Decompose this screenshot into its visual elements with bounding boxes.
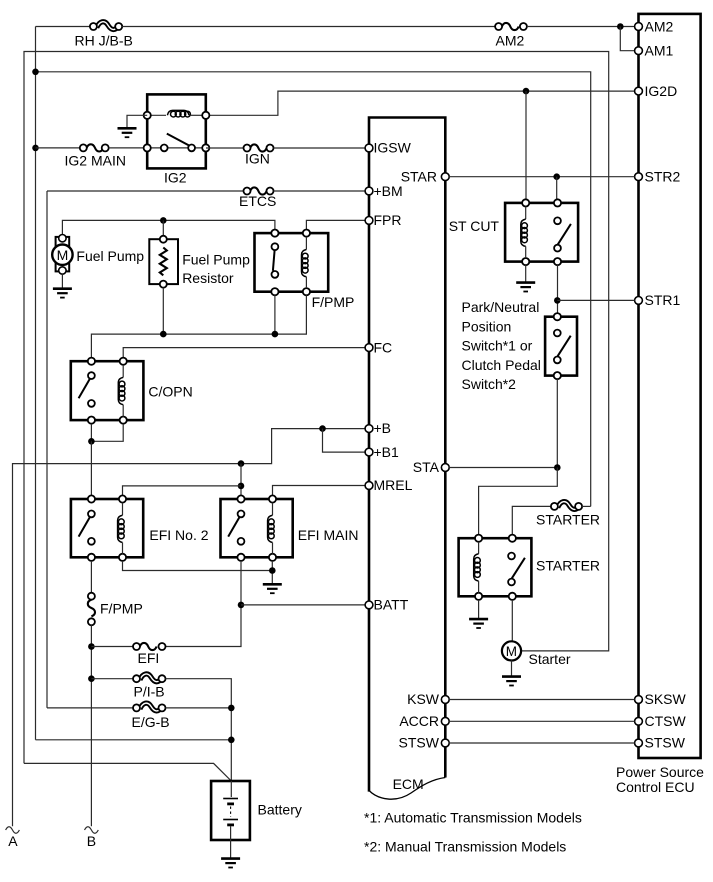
node IG2D / ST CUT branch: [523, 88, 530, 95]
svg-text:Fuel Pump: Fuel Pump: [76, 248, 144, 264]
svg-text:ACCR: ACCR: [399, 713, 439, 729]
svg-text:FC: FC: [374, 339, 393, 355]
note *1: [364, 810, 582, 826]
node +B branch: [319, 425, 326, 432]
svg-text:A: A: [8, 833, 18, 849]
svg-text:*2: Manual Transmission Models: *2: Manual Transmission Models: [364, 838, 566, 854]
pin STR2: [635, 168, 681, 184]
node STAR/ST CUT junction: [553, 173, 560, 180]
svg-text:ETCS: ETCS: [239, 193, 276, 209]
wire ETCS left segment: [47, 190, 244, 192]
node STA junction: [554, 464, 561, 471]
node EFI feed junction y=463.6: [238, 460, 245, 467]
ECM box: [369, 118, 445, 800]
wire ST CUT switch to STR1 junction: [557, 265, 559, 313]
ground (fuel pump): [53, 289, 72, 298]
ground (IG2 coil): [118, 128, 137, 137]
svg-text:SKSW: SKSW: [645, 691, 687, 707]
ground (battery): [221, 859, 240, 868]
node C/OPN output: [88, 438, 95, 445]
pin +B1: [365, 444, 399, 460]
svg-text:Power Source: Power Source: [616, 764, 704, 780]
ground (EFI relays): [263, 584, 282, 593]
wire STARTER coil to ground: [478, 600, 480, 619]
wire battery rail to RH J/B-B line (x=35.5): [35, 27, 37, 740]
wire +B1 branch: [323, 429, 366, 453]
Power Source Control ECU box: [616, 14, 704, 795]
wire ETCS to +BM pin: [274, 190, 366, 192]
svg-text:Battery: Battery: [258, 801, 302, 817]
node IG2 MAIN junction on battery rail: [32, 145, 39, 152]
wire y=26.5 right segment to AM2 pin: [527, 26, 635, 28]
note *2: [364, 838, 566, 854]
ground (STARTER relay): [469, 619, 488, 628]
wire KSW to SKSW: [449, 699, 634, 701]
wire P/I-B left segment: [91, 678, 133, 680]
fuse RH J/B-B: [75, 22, 133, 49]
svg-text:EFI No. 2: EFI No. 2: [149, 527, 208, 543]
svg-text:STARTER: STARTER: [536, 512, 600, 528]
svg-text:BATT: BATT: [374, 597, 409, 613]
pin STAR: [401, 168, 450, 184]
svg-text:STSW: STSW: [645, 735, 686, 751]
pin IG2D: [635, 83, 678, 99]
svg-text:F/PMP: F/PMP: [312, 294, 355, 310]
wire relay coil grounds join: [123, 561, 273, 584]
pin MREL: [365, 477, 413, 493]
wire RH J/B-B rail bottom segment: [36, 739, 232, 741]
wire IG2 MAIN left segment: [36, 147, 80, 149]
wire STA to STARTER coil: [479, 468, 558, 535]
svg-text:Switch*1 or: Switch*1 or: [462, 338, 533, 354]
terminal B: [85, 827, 99, 849]
fuse AM2: [495, 23, 527, 49]
wire starter motor to ground: [511, 660, 513, 676]
wire STSW to STSW: [449, 742, 634, 744]
relay EFI No. 2: [71, 495, 209, 561]
wire P/I-B to battery rail: [166, 679, 232, 781]
wire B-terminal rail (x=91.4): [90, 625, 92, 826]
svg-text:IG2 MAIN: IG2 MAIN: [65, 153, 126, 169]
relay STARTER: [459, 535, 600, 600]
wire E/G-B left segment: [47, 707, 133, 709]
fuse IGN: [244, 144, 274, 166]
resistor Fuel Pump Resistor: [149, 236, 250, 288]
svg-text:RH J/B-B: RH J/B-B: [75, 33, 133, 49]
wire BATT line: [241, 604, 365, 606]
pin STR1: [635, 292, 681, 308]
svg-text:M: M: [57, 247, 69, 263]
wire IG2 MAIN to relay: [109, 147, 147, 149]
svg-text:Control ECU: Control ECU: [616, 779, 695, 795]
pin FPR: [365, 212, 401, 228]
svg-text:Position: Position: [462, 318, 512, 334]
svg-text:STAR: STAR: [401, 168, 437, 184]
svg-text:FPR: FPR: [374, 212, 402, 228]
node E/G-B battery junction: [228, 705, 235, 712]
svg-text:EFI: EFI: [138, 650, 160, 666]
wire F/PMP switch bottom: [274, 295, 276, 334]
wire STA line: [449, 467, 557, 469]
svg-text:F/PMP: F/PMP: [100, 601, 143, 617]
node RH J/B-B battery junction: [228, 737, 235, 744]
terminal A: [6, 827, 20, 849]
pin IGSW: [365, 140, 412, 156]
svg-text:KSW: KSW: [407, 691, 440, 707]
svg-text:M: M: [506, 644, 517, 659]
pin STSW (ECM): [399, 735, 450, 751]
node MREL-line junction: [238, 483, 245, 490]
wire ST CUT coil to ground: [525, 265, 527, 282]
wire IGN to IGSW pin: [274, 147, 366, 149]
svg-text:EFI MAIN: EFI MAIN: [298, 527, 359, 543]
svg-text:STARTER: STARTER: [536, 558, 600, 574]
svg-text:Starter: Starter: [529, 651, 571, 667]
relay EFI MAIN: [221, 495, 359, 561]
wire IG2 coil to IG2D pin: [206, 91, 635, 115]
motor Fuel Pump: [52, 235, 144, 275]
svg-text:Resistor: Resistor: [182, 270, 234, 286]
node coil ground junction: [269, 567, 276, 574]
svg-text:C/OPN: C/OPN: [148, 384, 192, 400]
svg-text:IGSW: IGSW: [374, 140, 412, 156]
wire y=26.5 middle segment: [122, 26, 495, 28]
svg-text:Fuel Pump: Fuel Pump: [182, 252, 250, 268]
wire top line y=26.5 left segment: [36, 26, 91, 28]
wire A-terminal rail (x=12.5) and +B feed: [13, 429, 366, 827]
svg-text:ST CUT: ST CUT: [449, 218, 500, 234]
wire junction to ST CUT switch: [556, 177, 558, 200]
ground (ST CUT): [516, 283, 535, 292]
relay F/PMP: [255, 230, 355, 311]
node EFI fuse junction: [88, 643, 95, 650]
node resistor top: [160, 217, 167, 224]
node STR1 junction: [554, 297, 561, 304]
wire jumper to AM1: [620, 27, 634, 51]
wire STARTER switch to motor: [511, 600, 513, 642]
svg-text:P/I-B: P/I-B: [134, 684, 165, 700]
wire P/N switch to STA junction: [556, 379, 558, 467]
node BATT junction: [238, 602, 245, 609]
svg-text:E/G-B: E/G-B: [132, 714, 170, 730]
wire ACCR to CTSW: [449, 720, 634, 722]
svg-text:Park/Neutral: Park/Neutral: [462, 299, 540, 315]
wire STARTER fuse right segment: [582, 505, 591, 507]
fuse F/PMP: [88, 593, 143, 626]
svg-text:STSW: STSW: [399, 735, 440, 751]
wire resistor bottom to return line: [162, 288, 164, 335]
wire IGN segment: [206, 147, 244, 149]
wire C/OPN to EFI No.2 switch: [90, 441, 92, 495]
pin ACCR: [399, 713, 449, 729]
wire FC line: [123, 348, 365, 358]
pin KSW: [407, 691, 449, 707]
svg-text:*1: Automatic Transmission Mod: *1: Automatic Transmission Models: [364, 810, 582, 826]
fuse P/I-B: [133, 674, 166, 700]
wire EFI No.2 switch down to F/PMP fuse: [90, 561, 92, 593]
wire IG2 coil to ground: [127, 115, 147, 127]
svg-text:AM2: AM2: [496, 33, 525, 49]
svg-text:STR2: STR2: [645, 168, 681, 184]
node P/I-B junction: [88, 675, 95, 682]
switch Park/Neutral Position or Clutch Pedal: [462, 299, 578, 392]
fuse IG2 MAIN: [65, 144, 126, 168]
wire STAR to STR2: [449, 176, 634, 178]
pin CTSW: [635, 713, 687, 729]
wire E/G-B right segment: [166, 707, 232, 709]
svg-text:IG2: IG2: [164, 170, 187, 186]
wire ETCS rail (x=47): [46, 191, 48, 708]
pin STA: [413, 459, 449, 475]
svg-text:+BM: +BM: [374, 183, 403, 199]
relay ST CUT: [449, 199, 578, 265]
wire pump return line y=334.1: [91, 295, 306, 357]
node resistor bottom junction: [160, 331, 167, 338]
svg-text:IGN: IGN: [245, 151, 270, 167]
wire MREL pin to EFI MAIN coil: [273, 486, 366, 496]
svg-text:Switch*2: Switch*2: [462, 376, 517, 392]
relay C/OPN: [71, 358, 193, 424]
node AM2/AM1 junction: [617, 23, 624, 30]
ground (starter motor): [502, 677, 521, 686]
node y=71.8 on battery rail: [32, 69, 39, 76]
wire STR1 line: [557, 299, 634, 301]
pin +B: [365, 420, 391, 436]
pin +BM: [365, 183, 403, 199]
svg-text:MREL: MREL: [374, 477, 413, 493]
fuse EFI: [133, 643, 166, 666]
pin AM2: [635, 19, 674, 35]
wire to ST CUT coil: [525, 91, 527, 199]
svg-text:+B1: +B1: [374, 444, 400, 460]
wire C/OPN bottom junction: [91, 424, 123, 442]
svg-text:IG2D: IG2D: [645, 83, 678, 99]
wire resistor top stub: [162, 220, 164, 235]
fuse STARTER: [536, 502, 600, 528]
wire EFI MAIN switch to BATT line and EFI fuse: [166, 561, 242, 647]
svg-text:+B: +B: [374, 420, 392, 436]
wire battery to starter-motor line (x=24 rail, y=51.5 line): [24, 52, 609, 764]
wire fuel pump feed line y=220.4: [62, 220, 275, 234]
pin BATT: [365, 597, 409, 613]
svg-text:ECM: ECM: [393, 776, 424, 792]
svg-text:CTSW: CTSW: [645, 713, 687, 729]
battery: [211, 781, 302, 859]
wire EFI fuse left segment: [91, 646, 133, 648]
fuse E/G-B: [132, 703, 170, 730]
fuse ETCS: [239, 187, 276, 208]
wire EFI No.2 coil to junction: [123, 486, 242, 496]
node F/PMP switch junction: [272, 331, 279, 338]
svg-text:Clutch Pedal: Clutch Pedal: [462, 357, 541, 373]
pin STSW (ECU): [635, 735, 686, 751]
wire junction down to EFI MAIN switch: [240, 464, 242, 496]
svg-text:AM2: AM2: [645, 19, 674, 35]
pin FC: [365, 339, 392, 355]
wire battery positive diagonal feed: [24, 763, 231, 781]
svg-text:STR1: STR1: [645, 292, 681, 308]
wire STARTER fuse left to relay switch: [512, 506, 551, 534]
svg-text:B: B: [87, 833, 96, 849]
relay IG2: [144, 94, 210, 185]
wire FPR pin segment: [306, 220, 365, 229]
pin SKSW: [635, 691, 687, 707]
svg-text:AM1: AM1: [645, 42, 674, 58]
wire fuel pump to ground: [61, 274, 63, 288]
motor Starter: [502, 641, 571, 667]
svg-text:STA: STA: [413, 459, 440, 475]
wire y=71.8 line to STARTER fuse rail: [36, 72, 591, 507]
pin AM1: [635, 42, 674, 58]
